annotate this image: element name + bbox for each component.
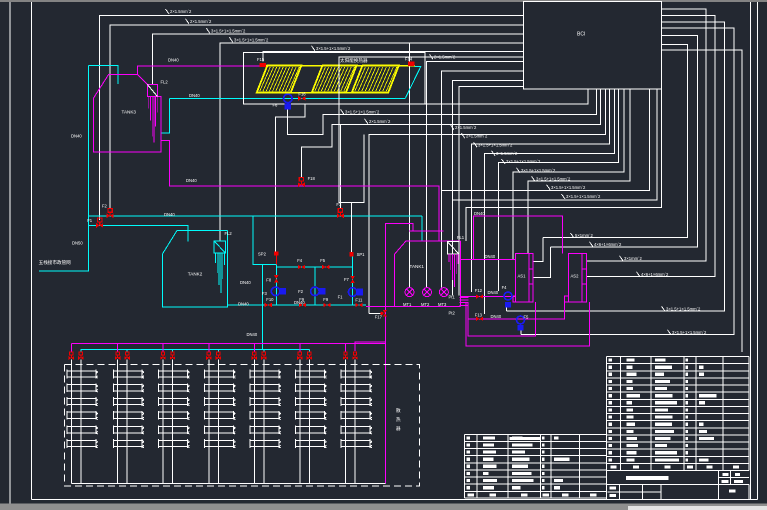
wire C6 to valve F13 (484, 89, 614, 315)
svg-text:Pt1: Pt1 (449, 295, 456, 300)
pipe pump F4 line DN40 (461, 296, 516, 298)
radiator column 2 supply valve (117, 344, 119, 353)
svg-text:2×1.5mm´2: 2×1.5mm´2 (369, 119, 391, 124)
pipe radiator return riser (261, 265, 263, 350)
svg-text:F9: F9 (323, 297, 329, 302)
svg-text:F16: F16 (298, 91, 306, 96)
tank TANK2 (162, 231, 227, 308)
pipe AS1 return (468, 302, 535, 336)
valve F16 (298, 96, 305, 100)
pipe radiator column7 return jog (355, 342, 386, 351)
pipe pump column 3 (352, 256, 354, 305)
wire R5 from BCI right (507, 22, 725, 311)
wire B6 to heater MT2 (426, 62, 523, 288)
pipe AS2 return (466, 302, 590, 346)
wire C10 joins heater MT3 drop (442, 89, 650, 191)
valve F3 (338, 209, 342, 213)
wire AS1 port 2 stub (533, 247, 551, 277)
svg-text:五栈接市政管网: 五栈接市政管网 (39, 259, 72, 266)
svg-text:F1: F1 (87, 218, 93, 223)
svg-text:AS2: AS2 (571, 274, 580, 279)
wire B8 to sensor Pt1 (453, 80, 524, 295)
svg-text:F7: F7 (344, 277, 350, 282)
radiator column 3 (162, 364, 164, 483)
valve F4 (298, 265, 305, 269)
pipe tank1 bottom manifold (366, 306, 461, 308)
heater MT2 (423, 288, 432, 297)
sensor SP1 (349, 252, 353, 256)
svg-text:3×1.5+1×1.5mm´2: 3×1.5+1×1.5mm´2 (536, 177, 571, 182)
valve F1 (98, 218, 102, 222)
svg-text:F12: F12 (475, 288, 483, 293)
wire C7 to pump F4 (499, 89, 619, 292)
svg-text:2×1.5mm´2: 2×1.5mm´2 (170, 9, 192, 14)
radiator column 7 return valve (353, 352, 356, 355)
svg-text:DN40: DN40 (247, 332, 258, 337)
svg-text:3×1.5+1×1.5mm´2: 3×1.5+1×1.5mm´2 (234, 38, 269, 43)
wire B2 to valve F2 (110, 25, 523, 209)
svg-text:热: 热 (396, 416, 401, 423)
pipe radiator supply riser (386, 223, 414, 483)
sensor stack Pt1 Pt2 (460, 297, 469, 299)
window top grey bar (0, 0, 767, 2)
pipe TANK3 bottom outlet to return main (161, 141, 439, 241)
wire R6 from BCI right (521, 28, 734, 335)
svg-text:F4: F4 (297, 258, 303, 263)
radiator column 4 supply valve (208, 344, 210, 353)
svg-text:TANK3: TANK3 (122, 110, 137, 115)
pump F5b (517, 316, 525, 324)
svg-text:3×1.5+1×1.5mm´2: 3×1.5+1×1.5mm´2 (551, 185, 586, 190)
svg-text:DN40: DN40 (164, 212, 175, 217)
svg-text:FL2: FL2 (225, 231, 233, 236)
valve F11 (355, 303, 362, 307)
radiator column 4 return valve (217, 350, 219, 353)
svg-text:F5: F5 (320, 258, 326, 263)
wire B1 to valve F1 (100, 15, 524, 220)
wire C11 joins sensor Pt1 drop (453, 89, 658, 200)
svg-text:F11: F11 (355, 297, 363, 302)
radiator column 1 (70, 364, 72, 483)
wire C5 to valve F12 (472, 89, 610, 293)
wire R1 from BCI right (543, 45, 688, 238)
collector bottom connector 1 (291, 92, 312, 94)
svg-text:F15: F15 (257, 57, 265, 62)
pipe cold water main DN40 (89, 215, 422, 217)
svg-text:F1: F1 (338, 295, 344, 300)
wire R4 from BCI right (587, 15, 716, 276)
svg-text:AS1: AS1 (518, 274, 527, 279)
wire C8 to unit AS1 (513, 89, 624, 260)
equipment table left (464, 433, 606, 435)
float valve FL1 of TANK1 (447, 242, 459, 254)
pump F4b (504, 292, 512, 300)
radiator column 3 return valve (172, 350, 174, 353)
valve F8 (274, 275, 278, 282)
pipe pump F5 line DN40 (468, 297, 565, 319)
svg-text:TANK1: TANK1 (410, 264, 425, 269)
svg-text:2×1.5mm´2: 2×1.5mm´2 (466, 134, 488, 139)
collector panel 3 (352, 66, 399, 93)
wire B9 to sensor stack Pt2 (459, 87, 523, 296)
pipe radiator return manifold (81, 349, 310, 351)
valve F2 (108, 209, 112, 213)
svg-text:F6: F6 (273, 103, 279, 108)
pump F6 (284, 94, 293, 103)
svg-text:DN40: DN40 (186, 178, 197, 183)
pipe municipal riser DN50 (39, 66, 88, 271)
valve F5 (322, 265, 329, 269)
svg-text:2×1.5mm´2: 2×1.5mm´2 (190, 19, 212, 24)
radiator column 2 return valve (126, 350, 128, 353)
wire from sensor SP1 (352, 134, 365, 252)
svg-text:DN40: DN40 (71, 134, 82, 139)
svg-text:F18: F18 (308, 176, 316, 181)
wire R3 from BCI right (587, 9, 707, 261)
svg-text:MT1: MT1 (403, 302, 412, 307)
pipe suction main DN40 (228, 304, 366, 306)
svg-text:太阳能换热器: 太阳能换热器 (340, 57, 368, 64)
wire C12 to tank top sensor (466, 89, 661, 241)
svg-text:3×1mm´2: 3×1mm´2 (624, 256, 642, 261)
radiator column 6 (299, 364, 301, 483)
wire R7 from BCI right (661, 50, 742, 352)
valve F17 (369, 312, 381, 314)
radiator column 1 supply valve (70, 344, 72, 353)
svg-text:TANK2: TANK2 (188, 272, 203, 277)
valve F12 (476, 294, 483, 298)
radiator column 6 supply valve (299, 344, 301, 353)
svg-text:3×1.5+1×1.5mm´2: 3×1.5+1×1.5mm´2 (566, 194, 601, 199)
svg-text:SP1: SP1 (357, 252, 366, 257)
radiator column 1 return valve (80, 350, 82, 353)
radiator column 4 (208, 364, 210, 483)
wire C4 from valve F17 (369, 89, 606, 314)
svg-text:BCI: BCI (577, 32, 585, 38)
float valve FL2 of TANK3 (147, 85, 157, 97)
svg-text:FL2: FL2 (161, 80, 169, 85)
svg-text:4×6+1×6mm´2: 4×6+1×6mm´2 (594, 242, 622, 247)
svg-text:3×1.5+1×1.5mm´2: 3×1.5+1×1.5mm´2 (316, 46, 351, 51)
collector panel 1 (257, 66, 302, 93)
svg-text:F4: F4 (502, 285, 508, 290)
collector enclosure (243, 53, 424, 105)
valve F18 (299, 177, 303, 181)
radiator column 7 (345, 364, 347, 483)
svg-text:DN40: DN40 (491, 314, 502, 319)
svg-text:MT2: MT2 (421, 302, 430, 307)
svg-text:DN40: DN40 (238, 302, 249, 307)
wire size labels (166, 9, 708, 335)
wire C3 from valve F18 (301, 89, 600, 179)
heater comb TANK1 (448, 254, 450, 262)
pipe pump column 1 (275, 256, 277, 305)
wire to heater MT1 (409, 43, 411, 288)
radiator column 5 return valve (263, 350, 265, 353)
svg-text:F17: F17 (375, 314, 383, 319)
wire B5 from sensor F15 (263, 52, 524, 62)
svg-text:DN40: DN40 (485, 254, 496, 259)
sensor F15 (260, 63, 267, 67)
wire from valve F3 (339, 125, 341, 209)
svg-text:FL1: FL1 (457, 235, 465, 240)
pipe AS1 supply DN40 (461, 258, 516, 260)
radiator column 5 (253, 364, 255, 483)
radiator column 6 return valve (308, 350, 310, 353)
svg-text:散: 散 (396, 407, 401, 414)
svg-text:DN40: DN40 (189, 93, 200, 98)
unit AS2 (569, 254, 587, 303)
pipe TANK3 outlet DN40 (406, 66, 421, 98)
unit AS1 (516, 254, 533, 303)
svg-text:DN50: DN50 (72, 241, 83, 246)
collector header (266, 65, 415, 67)
svg-text:3×1.5mm´2: 3×1.5mm´2 (496, 151, 518, 156)
svg-text:5×1mm´2: 5×1mm´2 (575, 233, 593, 238)
tank TANK1 (394, 241, 460, 255)
valve F7 (351, 276, 355, 283)
svg-text:F3: F3 (262, 291, 268, 296)
svg-text:3×1.5+1×1.5mm´2: 3×1.5+1×1.5mm´2 (666, 306, 701, 311)
float valve FL2 of TANK2 (214, 241, 225, 253)
heater MT3 (439, 288, 448, 297)
pipe TANK1 cold feed drop (421, 216, 423, 241)
collector bottom connector 2 (346, 92, 352, 94)
svg-text:F13: F13 (475, 312, 483, 317)
wire B4 to float valve FL2 of TANK2 (220, 43, 524, 241)
svg-text:DN40: DN40 (474, 211, 485, 216)
pump F2 (311, 287, 320, 296)
heater comb TANK3 (148, 97, 150, 109)
equipment table right footer (607, 462, 749, 464)
svg-text:Pt2: Pt2 (449, 311, 456, 316)
wire C2 from pump F6 (288, 89, 597, 135)
valve F10 (265, 303, 272, 307)
svg-text:DN40: DN40 (168, 58, 179, 63)
wire AS1 port 1 stub (533, 238, 543, 262)
svg-text:SP2: SP2 (258, 252, 267, 257)
sensor F14 (408, 62, 414, 66)
svg-text:2×1.5mm´2: 2×1.5mm´2 (455, 125, 477, 130)
pipe AS2 supply DN40 (473, 216, 562, 259)
heater comb TANK2 (215, 253, 217, 263)
controller BCI (524, 2, 662, 89)
radiator column 5 supply valve (253, 344, 255, 353)
wire from pump F5 motor (520, 331, 522, 335)
equipment table left footer (464, 490, 606, 492)
pump F1 (348, 288, 357, 297)
wire B7 to heater MT3 (442, 71, 524, 287)
pipe radiator supply manifold (71, 343, 385, 345)
wire C1 from sensor SP2 (276, 89, 588, 252)
room dashed border (64, 364, 419, 486)
svg-text:DN40: DN40 (240, 280, 251, 285)
svg-text:F2: F2 (298, 289, 304, 294)
wire from sensor SP1 (339, 57, 524, 252)
radiator bottom header (71, 483, 385, 485)
svg-text:F10: F10 (266, 297, 274, 302)
pump F3 (271, 287, 280, 296)
sensor SP2 (274, 251, 278, 255)
valve F9b (323, 303, 330, 307)
svg-text:MT3: MT3 (438, 302, 447, 307)
svg-text:DN40: DN40 (294, 300, 305, 305)
valve F13 (476, 317, 483, 321)
svg-text:3×1.5+1×1.5mm´2: 3×1.5+1×1.5mm´2 (211, 29, 246, 34)
pipe TANK3 hot supply DN40 (138, 66, 260, 75)
radiator column 2 (117, 364, 119, 483)
svg-text:DN40: DN40 (488, 290, 499, 295)
wire from pump F4 motor (506, 307, 508, 311)
svg-text:3×1.5+1×1.5mm´2: 3×1.5+1×1.5mm´2 (506, 159, 541, 164)
equipment table right (607, 356, 749, 358)
collector panel 2 (312, 66, 357, 93)
pipe TANK2 fill line (89, 225, 188, 241)
svg-text:4×6+1×6mm´2: 4×6+1×6mm´2 (641, 272, 669, 277)
pipe TANK3 inlet (89, 66, 118, 84)
svg-text:3×1.5+1×1.5mm´2: 3×1.5+1×1.5mm´2 (672, 330, 707, 335)
radiator column 3 supply valve (162, 344, 164, 353)
svg-text:F5: F5 (524, 315, 530, 320)
heater MT1 (405, 288, 414, 297)
svg-text:3×1.5+1×1.5mm´2: 3×1.5+1×1.5mm´2 (345, 110, 380, 115)
svg-text:F2: F2 (102, 204, 108, 209)
pipe pump manifold with valves F4 F5 (276, 266, 352, 268)
window bottom grey bar (0, 504, 767, 510)
valve F9 (299, 303, 306, 307)
wire B3 to float valve FL2 of TANK3 (153, 34, 524, 85)
svg-text:F8: F8 (266, 277, 272, 282)
tank TANK3 (94, 75, 161, 152)
pipe drop to pump manifold (253, 216, 276, 265)
wire C9 (528, 89, 630, 254)
pipe pump column 2 (314, 267, 316, 305)
svg-text:3×1.5+1×1.5mm´2: 3×1.5+1×1.5mm´2 (521, 168, 556, 173)
wire R2 from BCI right (551, 35, 698, 247)
svg-text:3×1.5+1×1.5mm´2: 3×1.5+1×1.5mm´2 (478, 142, 513, 147)
radiator column 7 supply valve (345, 344, 347, 353)
